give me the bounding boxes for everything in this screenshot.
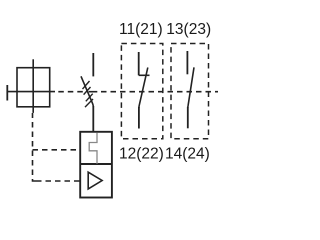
NC aux contact top lead: [138, 52, 140, 75]
main contact slash 3: [86, 94, 93, 102]
NO aux contact bottom lead: [187, 107, 189, 128]
mechanical linkage dashed branch to magnetic release: [36, 180, 80, 182]
NC aux contact bottom lead: [138, 107, 140, 129]
mechanical linkage dashed horizontal main: [58, 91, 85, 93]
main contact blade: [81, 76, 93, 107]
NO aux contact top lead: [186, 51, 188, 74]
main contact slash 4: [85, 99, 93, 107]
aux contact box 13-14 dashed: [171, 44, 209, 139]
wire main contact to release box: [92, 106, 94, 132]
thermal overload release step symbol: [89, 133, 97, 164]
release box: [80, 132, 112, 198]
mechanical linkage dashed horizontal to aux contacts: [101, 91, 218, 93]
aux contact box 11-12 dashed: [121, 44, 162, 139]
magnetic release triangle: [88, 172, 102, 189]
NO aux contact blade: [188, 67, 194, 108]
svg-text:13(23): 13(23): [166, 21, 211, 38]
main contact top lead: [92, 53, 94, 76]
NC aux contact blade: [139, 68, 148, 109]
operator square symbol: [17, 68, 50, 107]
main contact slash 2: [84, 87, 91, 95]
svg-text:12(22): 12(22): [119, 146, 164, 163]
svg-text:14(24): 14(24): [165, 146, 210, 163]
mechanical linkage dashed branch to thermal release: [33, 149, 81, 151]
mechanical linkage long dash right of blade: [89, 91, 98, 93]
release box divider: [80, 163, 112, 165]
NC aux contact seat: [139, 74, 150, 76]
main contact slash 1: [83, 81, 90, 89]
svg-text:11(21): 11(21): [119, 21, 163, 38]
wire vertical through square: [32, 59, 34, 113]
wire horizontal through square: [7, 91, 55, 93]
terminal tick left: [6, 85, 8, 101]
mechanical linkage dashed vertical left: [33, 113, 37, 181]
